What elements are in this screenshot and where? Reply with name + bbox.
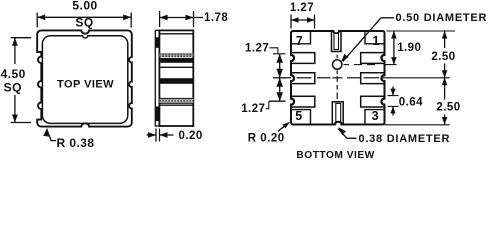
side view band dark 2 — [159, 78, 193, 84]
svg-text:1.78: 1.78 — [204, 12, 228, 24]
dim 5.00 arrow left — [37, 14, 45, 20]
bottom center pad outer — [332, 102, 343, 125]
leader 0.38 arrowhead — [339, 127, 346, 135]
svg-text:R 0.20: R 0.20 — [248, 132, 285, 144]
dim 2.50 lower arrow up — [442, 78, 448, 86]
svg-text:7: 7 — [296, 34, 303, 48]
dim 0.20 arrow right line — [160, 134, 174, 136]
svg-text:1.27: 1.27 — [241, 103, 265, 115]
side view seal band dark — [159, 58, 193, 63]
dim 1.78 ext right — [193, 11, 195, 27]
right side pad row A — [361, 53, 385, 64]
svg-text:0.50 DIAMETER: 0.50 DIAMETER — [396, 12, 488, 24]
svg-text:1.27: 1.27 — [290, 2, 314, 14]
dim 4.50 arrow up — [12, 38, 18, 46]
dim 1.27 left tick row B — [273, 77, 286, 79]
side strip hatch top — [155, 37, 159, 48]
svg-text:4.50: 4.50 — [1, 67, 26, 81]
dim 1.27 left tick row A — [273, 53, 286, 55]
horizontal centerline segment 1 — [284, 77, 292, 79]
svg-text:1.27: 1.27 — [245, 42, 269, 54]
leader 1.27 lower — [266, 101, 269, 109]
dim 2.50 lower line a — [444, 78, 446, 100]
circle centerline extension segment 1 — [344, 64, 350, 66]
dim 5.00 extension line right — [130, 13, 132, 28]
dim 4.50 dimension line upper — [14, 38, 16, 64]
leader 1.27 upper — [270, 48, 278, 54]
horizontal centerline segment 5 — [347, 77, 361, 79]
svg-text:1.90: 1.90 — [397, 42, 421, 54]
svg-text:SQ: SQ — [4, 80, 22, 94]
dim 2.50 upper line a — [444, 31, 446, 48]
dim 4.50 tick top — [11, 37, 31, 39]
side view line mid2 — [159, 104, 193, 106]
dim 1.27 left arrow down C — [276, 92, 283, 101]
dim 1.78 arrow right — [186, 15, 194, 21]
svg-text:0.64: 0.64 — [399, 97, 423, 109]
horizontal centerline segment 7 — [381, 77, 450, 79]
right side pad row C — [361, 96, 385, 107]
svg-text:5: 5 — [295, 109, 302, 123]
bottom view package outline — [291, 31, 385, 125]
dim 0.64 line below — [392, 106, 394, 115]
dim 1.78 ext left — [159, 11, 161, 27]
circle centerline extension segment 2 — [354, 64, 362, 66]
dim 1.90 arrow down — [391, 57, 397, 65]
corner pad 3 — [365, 110, 385, 125]
dim 0.64 tick bottom — [388, 105, 399, 107]
top view package outer outline — [37, 30, 132, 126]
side view seal band dotted — [159, 53, 193, 57]
side view lid line — [159, 33, 193, 35]
dim 1.90 line — [393, 31, 395, 65]
dim 0.20 arrow right — [160, 132, 168, 138]
dim 0.64 tick top — [388, 95, 399, 97]
vertical centerline segment 1 — [336, 55, 338, 59]
dim 1.78 arrow left — [160, 15, 168, 21]
hole circle 0.50 dia — [333, 60, 342, 69]
dim 4.50 tick bottom — [11, 122, 31, 124]
horizontal centerline segment 2 — [297, 77, 312, 79]
top view lid inner outline — [42, 36, 127, 124]
svg-text:0.20: 0.20 — [179, 130, 203, 142]
svg-text:1: 1 — [372, 34, 379, 48]
vertical centerline segment 5 — [336, 93, 338, 100]
dim 1.90 top extension — [387, 30, 456, 32]
dim 4.50 arrow down — [12, 115, 18, 123]
side view body — [159, 30, 193, 126]
left side pad row A — [291, 53, 315, 64]
leader 0.38 diameter — [338, 129, 357, 139]
dim 1.27 left tick row C — [269, 100, 286, 102]
side view castellation strip — [155, 30, 159, 126]
right side pad row B — [361, 73, 385, 84]
corner pad 7 — [291, 31, 311, 44]
side view line mid1 — [159, 66, 193, 68]
leader R 0.38 — [47, 130, 56, 141]
bottom edge extension — [385, 124, 450, 126]
dim 1.90 tick circle level — [384, 64, 397, 66]
top center pad outer — [332, 31, 342, 52]
dim 1.27 top ext right — [314, 15, 316, 29]
top center pad inner — [334, 33, 339, 49]
dim 5.00 arrow right — [123, 14, 131, 20]
leader R 0.20 — [278, 123, 289, 132]
leader R 0.38 arrowhead — [43, 128, 49, 137]
dim 0.20 ext right — [159, 129, 161, 142]
svg-text:0.38 DIAMETER: 0.38 DIAMETER — [359, 133, 451, 145]
svg-text:5.00: 5.00 — [72, 0, 97, 12]
side view band dotted 2 — [159, 98, 193, 103]
bottom center pad inner — [336, 103, 341, 124]
corner pad 5 — [291, 110, 311, 125]
dim 1.90 arrow up — [391, 31, 397, 39]
vertical centerline segment 3 — [336, 76, 338, 82]
dim 1.27 left arrow down B — [276, 69, 283, 78]
dim 0.64 arrow up — [390, 106, 395, 113]
svg-text:3: 3 — [372, 109, 379, 123]
dim 2.50 lower arrow down — [442, 117, 448, 125]
vertical centerline segment 2 — [336, 70, 338, 74]
dim 0.64 line above — [392, 87, 394, 96]
leader 0.50 diameter — [343, 18, 394, 62]
left side pad row C — [291, 96, 315, 107]
svg-text:2.50: 2.50 — [431, 51, 455, 63]
svg-text:BOTTOM VIEW: BOTTOM VIEW — [296, 150, 374, 161]
dim 1.27 left dimension line — [279, 54, 281, 101]
corner pad 1 — [365, 31, 385, 44]
horizontal centerline segment 3 — [317, 77, 331, 79]
vertical centerline segment 4 — [336, 85, 338, 90]
dim 5.00 extension line left — [36, 13, 38, 28]
dim 4.50 dimension line lower — [14, 95, 16, 123]
dim 1.27 left arrow up A — [276, 54, 283, 63]
svg-text:SQ: SQ — [75, 16, 93, 30]
dim 1.27 top ext left — [290, 15, 292, 29]
dim 0.20 arrow left — [148, 132, 156, 138]
leader R 0.20 arrowhead — [283, 122, 290, 128]
dim 1.27 top line — [291, 19, 315, 21]
dim 0.64 arrow down — [390, 89, 395, 96]
dim 0.20 arrow left line — [147, 134, 157, 136]
leader 0.50 arrowhead — [341, 54, 348, 62]
circle centerline extension segment 3 — [367, 64, 375, 66]
dim 1.27 top arrow left — [291, 17, 299, 23]
dim 2.50 upper arrow up — [442, 31, 448, 39]
dim 1.27 left arrow up B — [276, 78, 283, 87]
dim 1.78 tail — [194, 17, 204, 19]
side strip hatch bottom — [155, 107, 159, 122]
svg-text:2.50: 2.50 — [436, 102, 460, 114]
dim 0.20 ext left — [155, 129, 157, 142]
dim 1.78 line — [160, 17, 194, 19]
dim 2.50 lower line b — [444, 115, 446, 125]
dim 5.00 dimension line — [37, 16, 131, 18]
horizontal centerline segment 6 — [364, 77, 380, 79]
left side pad row B — [291, 73, 315, 84]
horizontal centerline segment 4 — [333, 77, 343, 79]
svg-text:R 0.38: R 0.38 — [57, 136, 95, 150]
dim 2.50 upper line b — [444, 64, 446, 78]
dim 2.50 upper arrow down — [442, 70, 448, 78]
dim 1.27 top arrow right — [307, 17, 315, 23]
svg-text:TOP VIEW: TOP VIEW — [57, 78, 114, 90]
